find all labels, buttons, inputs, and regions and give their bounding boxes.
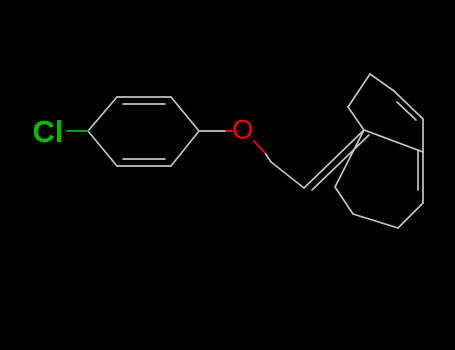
bond: aromatic inner line near H-I <box>397 102 416 120</box>
bond: chlorophenyl ring edge LL-L <box>88 131 117 166</box>
bond: naphthalene edge E2-V3 <box>335 130 364 187</box>
bond: C=C main line <box>304 130 364 188</box>
bond: C-O (ring to O) gray part <box>199 130 226 132</box>
bond: ring double-bond inner line bottom <box>123 158 165 160</box>
bond: chlorophenyl ring edge R-LR <box>171 131 199 166</box>
bond: chlorophenyl ring edge L-UL <box>88 97 117 131</box>
bond: aromatic inner line near B-C vertical <box>417 150 419 190</box>
bond: naphthalene edge I-B vertical <box>422 119 424 152</box>
bond: chlorophenyl ring edge UR-R <box>171 97 199 131</box>
bond: naphthalene edge G-H <box>370 74 394 91</box>
bond: naphthalene edge B-C <box>422 152 424 203</box>
svg-text:Cl: Cl <box>33 114 64 149</box>
naphthalene ring A top <box>348 74 423 152</box>
bond: C=C second line <box>312 135 369 190</box>
bond: naphthalene edge E-E2 <box>335 187 353 214</box>
bond: naphthalene fused edge V3-B <box>364 130 423 152</box>
bond: ring double-bond inner line top <box>123 103 165 105</box>
bond: naphthalene edge H-I <box>394 91 423 119</box>
svg-text:O: O <box>232 115 253 145</box>
bond: chlorophenyl ring edge LR-LL (bottom) <box>117 165 171 167</box>
bond: CH2-CH <box>271 162 304 188</box>
bond: Cl-C green <box>67 130 88 132</box>
benzene ring left (4-chlorophenyl) <box>88 97 199 166</box>
bond: O-CH2 red half near O <box>254 141 265 153</box>
naphthalene ring B bottom <box>335 130 423 228</box>
bond: O-CH2 gray part <box>265 153 271 162</box>
bond: naphthalene edge F-G <box>348 74 370 107</box>
bond: naphthalene edge V3-F <box>348 107 364 130</box>
bond: naphthalene edge C-D <box>398 203 423 228</box>
bond: C-O red half near O <box>226 130 233 132</box>
bond: chlorophenyl ring edge UL-UR (top) <box>117 96 171 98</box>
bond: naphthalene edge D-E <box>353 214 398 228</box>
